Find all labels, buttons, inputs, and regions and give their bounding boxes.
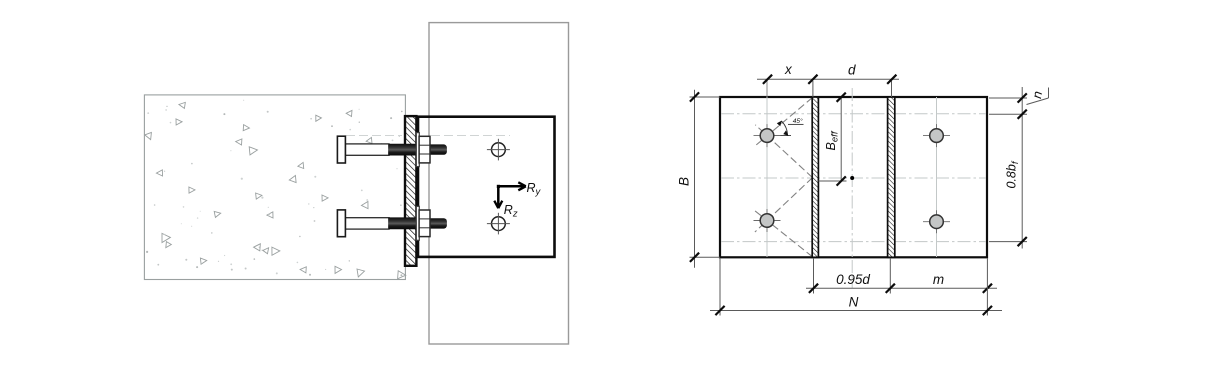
plan bolt 1 [754, 124, 781, 147]
hole H1 [487, 139, 510, 161]
nut [419, 210, 430, 237]
bolt centerline [346, 222, 389, 224]
dimension 0.95d and m bottom [806, 258, 997, 294]
svg-text:45°: 45° [793, 117, 803, 125]
dimension Beff [818, 93, 846, 186]
end plate (hatched) [405, 116, 416, 266]
plan bolt 4 [923, 210, 950, 233]
centerline vertical mid [851, 88, 853, 288]
concrete foundation [144, 95, 405, 280]
bolt thread (outer side) [425, 218, 447, 228]
dimension n and 0.8bf right [989, 87, 1049, 249]
anchor bolt shaft [345, 218, 389, 229]
hole H2 [487, 213, 510, 235]
flange strip right [888, 97, 895, 257]
svg-text:0.95d: 0.95d [836, 272, 870, 287]
anchor bolt top [337, 133, 447, 167]
dimension B left [677, 90, 721, 268]
svg-text:x: x [784, 62, 793, 77]
svg-text:n: n [1029, 90, 1045, 100]
45 degree annotation [767, 117, 804, 136]
yield line B [755, 125, 812, 178]
nut [419, 136, 430, 163]
svg-text:m: m [933, 272, 944, 287]
bolt centerline [346, 149, 389, 151]
column edge over bracket [428, 117, 430, 257]
centerline 0.8bf bottom [721, 241, 986, 243]
centerline right bolt column [936, 97, 938, 257]
washer [416, 206, 419, 240]
anchor bolt bottom [337, 206, 447, 240]
svg-text:N: N [849, 295, 859, 310]
base plate [720, 97, 987, 257]
svg-text:B: B [677, 177, 692, 186]
yield line D [754, 210, 812, 256]
yield line A [754, 98, 813, 147]
centerline 0.8bf top [721, 113, 986, 115]
plan bolt 3 [923, 124, 950, 147]
center point dot [850, 176, 854, 180]
bolt thread (outer side) [425, 144, 447, 154]
centerline horizontal mid [721, 177, 986, 179]
reaction arrows Ry Rz [494, 181, 541, 220]
concrete texture [145, 100, 407, 281]
flange strip left [812, 97, 818, 257]
dimension N bottom [710, 258, 1002, 316]
svg-text:d: d [848, 63, 856, 78]
washer [416, 133, 419, 167]
steel column [429, 23, 569, 344]
centerline left bolt column [766, 81, 768, 257]
anchor bolt head [337, 210, 345, 237]
bracket plate [418, 117, 555, 257]
yield line C [755, 178, 813, 232]
dimension line top x,d [757, 62, 899, 97]
bolt thread (embedded side) [388, 144, 417, 156]
svg-text:0.8bf: 0.8bf [1005, 160, 1022, 188]
hidden dash line top [346, 135, 510, 137]
bracket plate outline [418, 117, 555, 257]
plan bolt 2 [754, 209, 781, 232]
anchor bolt head [337, 136, 345, 163]
bolt thread (embedded side) [388, 217, 417, 229]
anchor bolt shaft [345, 144, 389, 155]
